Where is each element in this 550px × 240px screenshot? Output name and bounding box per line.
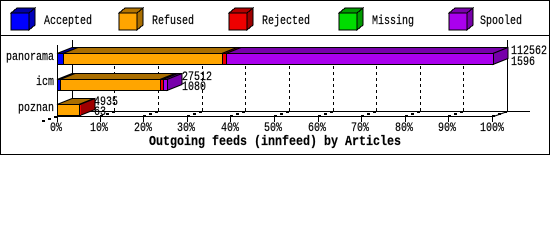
panorama accepted front <box>58 54 63 64</box>
bar icm: top faces <box>57 74 182 91</box>
outer border <box>1 1 550 155</box>
panorama red top <box>222 48 241 54</box>
svg-text:1596: 1596 <box>511 54 535 69</box>
legend separator line <box>0 35 550 36</box>
svg-text:0%: 0% <box>50 120 62 135</box>
panorama purple side <box>493 48 508 65</box>
svg-text:60%: 60% <box>308 120 326 135</box>
panorama orange top <box>63 48 237 54</box>
svg-text:100%: 100% <box>480 120 504 135</box>
panorama refused front <box>64 54 222 64</box>
bar panorama: front faces <box>57 53 494 65</box>
legend cube Missing <box>339 8 363 30</box>
poznan orange top <box>57 99 94 105</box>
svg-text:70%: 70% <box>351 120 369 135</box>
icm purple side <box>167 74 182 91</box>
svg-text:40%: 40% <box>221 120 239 135</box>
bar icm: front faces <box>57 79 168 91</box>
legend cube Refused <box>119 8 143 30</box>
back-left vertical axis <box>72 40 73 111</box>
icm blue top <box>57 74 75 80</box>
svg-text:poznan: poznan <box>18 100 54 115</box>
legend cube Rejected <box>229 8 253 30</box>
legend cube Spooled <box>449 8 473 30</box>
dashed back-wall gridlines 10%..90% <box>115 48 464 111</box>
poznan red top <box>79 99 95 105</box>
svg-text:panorama: panorama <box>6 49 54 64</box>
poznan red side <box>80 99 95 116</box>
icm orange top <box>60 74 175 80</box>
back-right vertical axis <box>507 40 508 111</box>
axis right depth diagonal <box>494 112 508 117</box>
icm refused front <box>61 80 160 90</box>
svg-text:1080: 1080 <box>182 79 206 94</box>
front axis ticks <box>100 116 493 122</box>
bar panorama: top faces <box>57 48 508 65</box>
bar poznan: front faces <box>57 104 81 116</box>
svg-text:20%: 20% <box>134 120 152 135</box>
svg-text:Rejected: Rejected <box>262 13 310 28</box>
svg-text:80%: 80% <box>395 120 413 135</box>
svg-text:Accepted: Accepted <box>44 13 92 28</box>
panorama spooled front <box>227 54 493 64</box>
icm rejected front <box>161 80 163 90</box>
icm accepted front <box>58 80 60 90</box>
svg-text:50%: 50% <box>264 120 282 135</box>
svg-text:63: 63 <box>94 104 106 119</box>
svg-text:90%: 90% <box>438 120 456 135</box>
panorama rejected front <box>223 54 226 64</box>
legend cube Accepted <box>11 8 35 30</box>
panorama blue top <box>57 48 78 54</box>
svg-text:Refused: Refused <box>152 13 194 28</box>
svg-text:10%: 10% <box>90 120 108 135</box>
icm spooled front <box>164 80 167 90</box>
poznan refused front <box>58 105 79 115</box>
back baseline <box>57 111 530 112</box>
icm purple top <box>163 74 182 80</box>
svg-text:Missing: Missing <box>372 13 414 28</box>
tick depth diagonal dashes <box>42 111 507 122</box>
svg-text:30%: 30% <box>177 120 195 135</box>
poznan rejected front <box>80 105 81 115</box>
icm red top <box>160 74 178 80</box>
svg-text:Outgoing feeds (innfeed) by Ar: Outgoing feeds (innfeed) by Articles <box>149 134 401 150</box>
front-left vertical axis with 0% tick <box>57 45 58 122</box>
front baseline <box>57 116 493 117</box>
svg-text:Spooled: Spooled <box>480 13 522 28</box>
bar poznan: top faces <box>57 99 95 116</box>
panorama purple top <box>226 48 508 54</box>
svg-text:icm: icm <box>36 74 54 89</box>
